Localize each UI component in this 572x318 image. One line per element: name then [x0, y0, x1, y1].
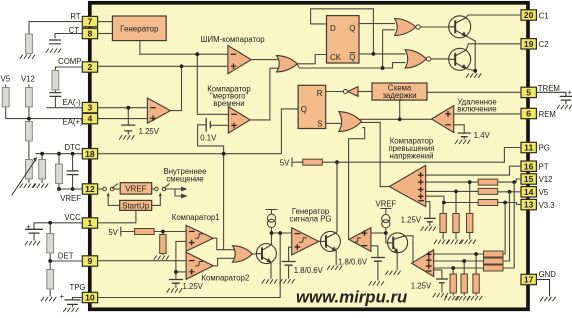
comparator4 U15 left-pointing — [349, 228, 371, 252]
ground below R15 — [447, 240, 462, 244]
wire V3.3 wrap to PG comparator R17 — [502, 203, 506, 255]
resistor R20 PG divider — [473, 274, 479, 293]
svg-text:V12: V12 — [539, 175, 553, 184]
transistor Q3 — [256, 244, 276, 264]
wire VREF current source leg — [386, 228, 388, 243]
wire REM - input to 1.4V cell — [454, 125, 465, 133]
current source I2 VREF — [382, 215, 390, 228]
switch2 contact circles — [155, 187, 159, 191]
transistor Q5 — [388, 233, 408, 254]
pin 1 VCC — [82, 218, 97, 228]
wire delay block to pin5 TREM — [427, 91, 521, 93]
wire V3.3 divider — [442, 203, 444, 214]
resistor R16 V3.3 divider — [440, 214, 446, 233]
wire V12 divider resistor to ground — [469, 233, 471, 240]
wire V3.3 divider resistor to ground — [442, 233, 444, 240]
wire COMP chain R to C — [54, 90, 56, 93]
wire RS Q output to DTC line — [281, 109, 298, 154]
svg-text:Q: Q — [349, 24, 355, 33]
wire V12 divider — [469, 182, 471, 213]
switch1 lever — [112, 184, 118, 189]
svg-text:5V: 5V — [280, 158, 290, 167]
svg-text:CK: CK — [330, 53, 342, 62]
pin 19 C2 — [521, 39, 536, 49]
comparator3 PG ramp U14 — [292, 228, 319, 255]
potentiometer RP1 — [26, 160, 33, 180]
svg-text:15: 15 — [524, 174, 534, 184]
RS flip-flop U5 — [298, 85, 326, 128]
wire oscillator output sawtooth — [140, 41, 228, 55]
svg-text:+: + — [567, 88, 572, 97]
wire COMP chain C to EA- line — [54, 96, 56, 107]
svg-text:2: 2 — [88, 62, 93, 72]
svg-text:11: 11 — [524, 143, 533, 153]
wire pin12 to switch1 — [98, 188, 103, 190]
wire PT pin16 to OVP input — [426, 166, 521, 175]
svg-text:CT: CT — [69, 26, 80, 35]
wire Q4 emitter to ground — [335, 251, 337, 266]
ground below Q1 Q2 emitters — [466, 73, 481, 77]
svg-text:VCC: VCC — [64, 213, 81, 222]
svg-text:4: 4 — [88, 114, 93, 124]
junction dots middle section — [398, 117, 402, 121]
comparator1 U11 — [186, 225, 213, 251]
wire V12 top — [28, 85, 30, 88]
resistor R4 DTC — [39, 160, 46, 180]
wire RS R input from inverter — [326, 91, 344, 93]
D flip-flop U1 — [327, 16, 360, 63]
svg-text:+: + — [26, 223, 31, 232]
pin 3 EA(-) — [82, 102, 97, 112]
wire V12 chain lower to pot — [28, 142, 30, 160]
wire pin7 to oscillator — [98, 21, 113, 23]
svg-text:REM: REM — [539, 110, 556, 119]
wire V5 pin14 line — [498, 191, 521, 193]
battery 1.4V — [458, 133, 471, 137]
pin 16 PT — [521, 161, 536, 171]
ground below C4 — [25, 241, 40, 245]
potentiometer arrow — [12, 160, 36, 196]
wire PG divider2 to ground — [463, 293, 465, 296]
svg-text:VREF: VREF — [376, 199, 397, 208]
inverter U6 — [343, 87, 358, 97]
ground below R21 — [455, 296, 470, 300]
svg-text:9: 9 — [88, 256, 93, 266]
comparator OVP U9 — [389, 165, 426, 206]
OR gate U7 S-input — [339, 112, 362, 132]
pin 18 DTC — [82, 149, 97, 159]
wire Q to NOR1 — [359, 23, 395, 25]
wire S-gate second input from PG comparator — [349, 128, 365, 240]
junction dots bottom section — [161, 230, 165, 234]
wire PG divider2 — [463, 261, 465, 274]
wire Q2 emitter to common — [466, 69, 475, 74]
wire PG divider1 to ground — [475, 293, 477, 296]
battery 1.8/0.6V first — [282, 262, 296, 266]
wire VCC dot to R6 — [49, 223, 51, 234]
wire comparator4 minus to cell — [371, 246, 378, 257]
wire 0.1V cell to deadtime + — [210, 124, 228, 126]
ground below first 1.8V cell — [279, 279, 294, 283]
wire DET pin9 external — [50, 260, 83, 262]
svg-text:Генератор: Генератор — [120, 25, 159, 34]
resistor R19 PG bottom — [484, 265, 504, 271]
pin 13 V3.3 — [521, 199, 536, 209]
transistor Q4 — [320, 231, 340, 251]
wire NOR1 out to Q1 base — [420, 26, 449, 28]
capacitor C4 at VCC polarized — [25, 229, 43, 233]
current source I1 — [267, 214, 275, 227]
svg-text:14: 14 — [524, 187, 534, 197]
wire deadtime output to OR1 — [250, 68, 278, 120]
wire VCC pin1 external — [34, 223, 84, 229]
wire OR1 output to CK — [297, 55, 327, 64]
wire comparator1 output to OR2 — [213, 238, 234, 250]
wire 5V resistor to comparator1 minus — [154, 231, 186, 233]
bias arrow 2 — [181, 194, 187, 199]
svg-text:1.4V: 1.4V — [474, 131, 491, 140]
wire 1.8V cell to ground — [288, 265, 290, 279]
svg-text:1: 1 — [88, 218, 93, 228]
wire 1.4V cell to ground — [463, 137, 465, 140]
svg-text:1.25V: 1.25V — [401, 215, 422, 224]
svg-text:1.8/0.6V: 1.8/0.6V — [294, 266, 324, 275]
wire TPG pin10 to PG node — [98, 233, 281, 298]
wire pin3 to EA - — [98, 107, 148, 109]
svg-text:C2: C2 — [539, 40, 549, 49]
capacitor C2 DTC-VREF — [67, 171, 79, 175]
reference block VREF — [120, 183, 152, 194]
switch1 contact circles — [103, 187, 107, 191]
wire NOR2 out to Q2 base — [429, 58, 449, 60]
svg-text:VREF: VREF — [60, 194, 81, 203]
wire COMP pin2 to PWM + — [98, 65, 228, 67]
pin 20 C1 — [521, 10, 536, 20]
wire R4 to ground — [41, 180, 43, 184]
wire OVP minus to 1.25V — [426, 202, 430, 219]
capacitor C5 at TPG polarized — [65, 300, 81, 305]
wire comparator4 plus from VREF node — [371, 232, 386, 234]
wire PG divider3 — [452, 268, 454, 274]
svg-text:DTC: DTC — [64, 143, 80, 152]
ground below R22 — [444, 296, 459, 300]
svg-text:C1: C1 — [539, 11, 549, 20]
svg-text:VREF: VREF — [125, 185, 146, 194]
ground below C1 — [46, 49, 61, 53]
wire comparator3 plus to 1.8V cell — [289, 247, 292, 261]
svg-text:DET: DET — [58, 252, 74, 261]
svg-text:www.mirpu.ru: www.mirpu.ru — [296, 288, 407, 307]
ground below OVP 1.25V — [421, 227, 436, 231]
wire delay input vertical — [399, 100, 401, 119]
svg-text:V5: V5 — [539, 188, 549, 197]
svg-text:PT: PT — [539, 162, 549, 171]
svg-text:10: 10 — [85, 293, 95, 303]
wire 1.25V rail to comparator1 plus — [176, 241, 186, 279]
wire comp 1.25V cell to ground — [175, 284, 177, 288]
svg-text:0.1V: 0.1V — [200, 133, 217, 142]
ground below R1 — [20, 55, 35, 59]
comparator2 U12 — [186, 252, 213, 279]
wire DTC pin18 internal line — [98, 153, 282, 155]
wire 5V source2 tick — [121, 227, 135, 236]
wire OR1 output branch to NOR gates — [297, 30, 405, 68]
svg-text:V3.3: V3.3 — [539, 201, 555, 210]
wire switch2 to bias arrows — [166, 189, 182, 196]
ground below R7 — [41, 297, 56, 301]
ground below R4 — [33, 184, 48, 188]
capacitor C3 in COMP chain — [49, 93, 61, 97]
ground below 1.25V EA cell — [119, 135, 134, 139]
wire PWM output to OR1 — [251, 59, 278, 61]
resistor R24 5V divider — [160, 235, 166, 254]
battery 1.8/0.6V second cell — [371, 258, 385, 262]
wire GND pin17 external — [536, 280, 549, 297]
wire S-gate tip to OVP comparator output — [360, 122, 390, 186]
svg-text:TPG: TPG — [69, 283, 85, 292]
svg-text:V12: V12 — [21, 75, 35, 84]
wire comparator3 out to Q4 base — [319, 240, 321, 242]
svg-text:1.8/0.6V: 1.8/0.6V — [338, 258, 368, 267]
wire V12 resistor to OVP input — [426, 181, 479, 183]
wire DTC pin18 external line — [36, 153, 84, 155]
wire EA output up to COMP line — [171, 66, 182, 110]
resistor R13 V3.3 — [478, 200, 498, 206]
pin 9 DET — [82, 256, 97, 266]
ground below R20 — [467, 296, 482, 300]
svg-text:S: S — [317, 120, 322, 129]
svg-text:напряжений: напряжений — [390, 151, 434, 160]
wire DTC to C2 — [72, 154, 74, 171]
wire R5 to VREF line — [58, 182, 60, 190]
wire PG line down to Q4 collector — [336, 162, 338, 232]
svg-text:3: 3 — [88, 103, 93, 113]
wire VREF source tick — [380, 209, 391, 215]
svg-text:5V: 5V — [108, 228, 118, 237]
wire EA(-) pin3 line — [47, 107, 84, 109]
startup block StartUp — [120, 200, 152, 210]
switch2 lever — [164, 184, 170, 189]
svg-text:16: 16 — [524, 161, 534, 171]
svg-text:1.25V: 1.25V — [183, 282, 204, 291]
ground below PG 1.25V — [433, 293, 448, 297]
wire PG node to comparator3 — [272, 232, 292, 234]
transistor Q2 — [449, 48, 471, 70]
wire current source to supply bar — [266, 210, 278, 215]
wire R6 to DET line — [49, 253, 51, 270]
transistor Q1 — [449, 16, 471, 38]
wire V12 wrap to PG comparator R19 — [502, 182, 515, 268]
wire StartUp to switch2 control — [152, 197, 161, 206]
ground below RP1 — [20, 184, 35, 188]
battery 1.25V OVP — [424, 218, 436, 221]
switch1 control arrow — [107, 192, 110, 196]
error amplifier EA — [147, 98, 170, 123]
battery 1.25V at error amp — [121, 125, 135, 131]
wire pot to ground — [28, 180, 30, 184]
capacitor C1 at CT — [49, 40, 61, 44]
comparator PG U10 — [412, 250, 434, 277]
resistor R23 5V — [135, 229, 155, 235]
wire 0.1V cell left leg to DTC line — [198, 125, 224, 154]
wire REM + input to pin6 — [454, 113, 521, 115]
delay block Схема задержки — [372, 83, 427, 100]
wire Q5 emitter to ground — [396, 253, 398, 271]
svg-text:12: 12 — [85, 184, 95, 194]
bias arrow 1 — [181, 187, 187, 192]
wire Qbar to NOR2 — [359, 53, 405, 55]
resistor R5 DTC-VREF — [56, 164, 63, 184]
svg-text:задержки: задержки — [382, 91, 416, 100]
wire PG comparator input line3 — [434, 267, 484, 269]
wire 5V divider resistor to ground — [162, 254, 164, 256]
wire C2 to VREF line — [72, 175, 74, 189]
resistor R9 V12 divider lower — [26, 122, 33, 142]
wire 1.25V ref to EA line — [127, 108, 129, 125]
ground at pin17 — [540, 297, 555, 301]
svg-text:8: 8 — [88, 29, 93, 39]
wire RT pin7 to R1 — [29, 22, 84, 34]
resistor R17 PG top — [484, 251, 504, 257]
wire PG comparator input line1 — [434, 253, 484, 255]
wire V5 divider — [455, 191, 457, 213]
pin 17 GND — [521, 274, 536, 284]
resistor R21 PG divider — [461, 274, 467, 293]
ground below R14 — [461, 240, 476, 244]
wire DET pin9 to comparator2 minus — [98, 260, 187, 262]
svg-text:Компаратор2: Компаратор2 — [202, 274, 250, 283]
wire 5V divider down — [162, 232, 164, 235]
wire VCC pin1 to StartUp — [98, 210, 136, 222]
wire 1.25V ref cell to ground — [127, 131, 129, 134]
wire DTC to R4 — [41, 154, 43, 160]
ground below Q4 — [327, 266, 342, 270]
switch2 control arrow — [159, 192, 162, 196]
pin 5 TREM — [521, 87, 536, 97]
svg-text:сигнала PG: сигнала PG — [289, 215, 331, 224]
wire DTC junction down to comparator1 OR — [223, 154, 225, 250]
svg-text:GND: GND — [539, 270, 557, 279]
ground below 1.4V — [455, 140, 470, 144]
svg-text:PG: PG — [539, 144, 550, 153]
wire PG divider3 to ground — [452, 293, 454, 296]
wire StartUp to switch1 control — [108, 197, 120, 206]
pin 14 V5 — [521, 187, 536, 197]
svg-text:RT: RT — [70, 12, 80, 21]
wire 5V source to PG line — [292, 158, 303, 167]
svg-text:1.25V: 1.25V — [139, 127, 160, 136]
wire Q5 collector to PG comparator output — [405, 236, 413, 263]
wire Q2 collector to pin19 — [466, 44, 521, 50]
pin 8 CT — [82, 28, 97, 38]
wire V5 resistor to OVP input — [426, 190, 479, 193]
wire PG line resistor to pin11 — [322, 148, 521, 163]
svg-text:13: 13 — [524, 200, 534, 210]
junction dots top section — [195, 52, 199, 56]
svg-text:Q: Q — [301, 105, 307, 114]
ground below Q3 — [262, 279, 277, 283]
battery 1.25V comparators — [169, 280, 183, 284]
svg-text:1.25V: 1.25V — [411, 281, 432, 290]
svg-text:включение: включение — [457, 105, 496, 114]
wire TPG pin10 external — [73, 298, 84, 300]
resistor R10 PG pullup — [303, 159, 323, 165]
wire PG comparator 1.25V to ground — [441, 283, 443, 292]
oscillator block Генератор — [112, 16, 166, 41]
ground below comparators 1.25V — [167, 288, 182, 292]
wire Q1 collector to pin20 — [466, 15, 521, 18]
wire pin8 to oscillator — [98, 33, 113, 35]
wire comparator2 output to OR2 — [213, 258, 234, 266]
deadtime comparator — [228, 107, 250, 133]
svg-text:V5: V5 — [1, 75, 11, 84]
ground below TREM cap — [557, 105, 572, 109]
wire EA(+) pin4 line to V5 divider — [6, 107, 84, 119]
NOR gate U4 — [405, 50, 431, 68]
ground below C5 — [63, 308, 78, 312]
wire V5 divider resistor to ground — [455, 233, 457, 240]
pin 11 PG — [521, 142, 536, 152]
resistor R7 DET-gnd — [47, 270, 54, 290]
resistor R3 V5 divider — [2, 88, 9, 108]
svg-text:R: R — [317, 89, 323, 98]
wire switch2 from VREF block — [152, 188, 155, 190]
wire D feedback — [311, 9, 374, 54]
wire Q1 emitter down — [466, 36, 475, 71]
resistor R6 VCC-DET — [47, 234, 54, 254]
IC body TPS3511 — [90, 3, 528, 310]
svg-text:20: 20 — [524, 10, 534, 20]
svg-text:смещение: смещение — [166, 174, 203, 183]
wire VREF pin12 external — [59, 188, 84, 190]
wire PG divider1 — [475, 254, 477, 274]
wire S-gate tip to REM comparator output — [360, 118, 432, 120]
pin 4 EA(+) — [82, 113, 97, 123]
OR gate U2 PWM-or — [277, 56, 298, 72]
wire CT pin8 to C1 — [55, 34, 84, 39]
pin 15 V12 — [521, 174, 536, 184]
svg-text:EA(-): EA(-) — [62, 98, 81, 107]
comparator remote enable U8 — [432, 106, 454, 133]
wire RS S input to S-gate — [326, 122, 342, 124]
pin 2 COMP — [82, 62, 97, 72]
wire Q4 collector up — [335, 162, 338, 232]
svg-text:5: 5 — [526, 88, 531, 98]
resistor R2 in COMP chain — [52, 71, 59, 91]
svg-text:17: 17 — [524, 275, 534, 285]
wire inverter to delay block — [358, 91, 372, 93]
pin 12 VREF — [82, 184, 97, 194]
wire PG comparator minus to 1.25V — [434, 270, 442, 279]
resistor R15 V5 divider — [453, 214, 459, 233]
svg-text:Q: Q — [349, 53, 355, 62]
resistor R18 PG mid — [484, 258, 504, 264]
svg-text:EA(+): EA(+) — [63, 118, 84, 127]
wire Q3 collector to current source — [271, 228, 273, 245]
pin 7 RT — [82, 16, 97, 26]
wire comparator4 cell to ground — [377, 261, 379, 280]
svg-text:StartUp: StartUp — [122, 201, 150, 210]
svg-text:19: 19 — [524, 39, 534, 49]
capacitor C6 at TREM external — [536, 92, 572, 104]
ground below R16 — [434, 240, 449, 244]
wire Q3 emitter to ground — [270, 262, 272, 279]
pin 10 TPG — [82, 292, 97, 302]
PWM comparator — [228, 46, 251, 74]
ground below R24 — [154, 256, 169, 260]
OR gate U13 — [233, 246, 253, 263]
resistor R11 V12 — [478, 179, 498, 185]
